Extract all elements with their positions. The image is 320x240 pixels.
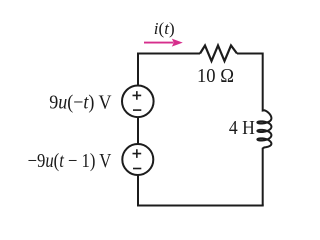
V1 plus sign — [133, 91, 142, 100]
voltage source V1 circle — [122, 86, 154, 118]
inductor L 4H coil — [257, 110, 271, 147]
wire between sources — [137, 117, 139, 144]
wire bottom — [137, 205, 264, 207]
label 9u(-t) V — [49, 92, 112, 114]
svg-text:−9u(t − 1) V: −9u(t − 1) V — [28, 150, 112, 173]
svg-text:10 Ω: 10 Ω — [197, 65, 234, 87]
svg-text:4 H: 4 H — [229, 117, 255, 139]
wire top left segment — [138, 53, 200, 55]
wire right upper — [263, 53, 265, 111]
resistor R 10 ohm — [200, 46, 237, 62]
svg-text:i(t): i(t) — [154, 19, 175, 38]
current arrow head — [172, 39, 183, 47]
voltage source V2 circle — [122, 144, 153, 175]
current arrow shaft — [144, 42, 174, 44]
label -9u(t-1) V — [28, 150, 112, 173]
V2 minus sign — [133, 168, 141, 170]
wire top right segment — [237, 53, 263, 55]
wire right lower — [263, 147, 265, 205]
V1 minus sign — [133, 109, 141, 111]
wire left lower — [137, 175, 139, 207]
wire left upper — [137, 53, 139, 86]
svg-text:9u(−t) V: 9u(−t) V — [49, 92, 112, 114]
V2 plus sign — [133, 149, 142, 158]
